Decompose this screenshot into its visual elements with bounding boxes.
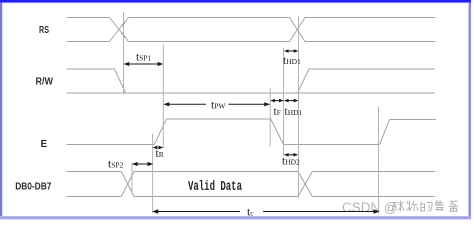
svg-text:tPW: tPW — [211, 100, 226, 112]
DB high rail — [67, 171, 436, 173]
RW low rail — [67, 92, 436, 94]
ref line V5 E fall start — [269, 88, 271, 146]
dimension tF arrow — [274, 100, 280, 102]
dimension tR arrow — [153, 146, 164, 150]
border right — [469, 3, 471, 217]
DB crossover X1 — [121, 172, 134, 197]
border left — [0, 3, 2, 217]
glyph dan — [449, 201, 458, 211]
svg-text:tF: tF — [274, 106, 281, 118]
border bottom — [0, 216, 471, 219]
svg-text:Valid Data: Valid Data — [188, 179, 242, 194]
svg-text:RS: RS — [39, 25, 49, 36]
dimension tC arrow — [157, 211, 374, 213]
svg-text:tSP1: tSP1 — [136, 52, 152, 64]
svg-text:tSP2: tSP2 — [108, 159, 124, 171]
X1 measure ticks — [122, 22, 126, 38]
ref line V1 RS change — [123, 12, 125, 95]
E high rail — [167, 118, 271, 120]
RW falling edge — [115, 69, 126, 93]
glyph de — [421, 202, 432, 212]
svg-text:R/W: R/W — [36, 77, 54, 88]
watermark CJK glyphs — [392, 200, 458, 212]
svg-text:tHD1: tHD1 — [283, 55, 301, 67]
ref line V6 E fall end — [283, 48, 285, 156]
E low rail left — [67, 144, 155, 146]
svg-text:tHD1: tHD1 — [285, 106, 303, 118]
RS high rail — [67, 17, 436, 19]
E high rail 2 — [390, 119, 437, 121]
DB crossover X2 — [298, 172, 312, 197]
RW rising edge — [298, 69, 310, 93]
svg-text:CSDN @: CSDN @ — [342, 200, 398, 215]
dimension tPW arrow — [169, 103, 266, 105]
RW high rail — [67, 68, 436, 70]
glyph du — [407, 201, 419, 212]
dimension tSP2 arrow — [137, 163, 149, 165]
border top — [0, 0, 471, 3]
glyph gu — [392, 201, 404, 212]
RS crossover X2 — [290, 18, 306, 42]
ref line V2 E rise end — [162, 45, 164, 149]
E low rail right — [284, 144, 380, 146]
ref line V8 E rise2 — [378, 107, 380, 213]
ref line V3 E rise start — [152, 134, 154, 214]
svg-text:tc: tc — [247, 207, 254, 219]
RS crossover X1 — [110, 18, 129, 42]
E rising edge — [154, 119, 166, 145]
glyph ao — [436, 200, 445, 211]
ref line V7 RS RW change — [298, 16, 300, 198]
dimension tHD2 arrow — [288, 154, 295, 156]
svg-text:tHD2: tHD2 — [282, 156, 300, 168]
RS low rail — [67, 41, 436, 43]
svg-text:DB0-DB7: DB0-DB7 — [15, 182, 52, 193]
DB low rail — [67, 196, 436, 198]
dimension tHD1 top arrow — [288, 50, 295, 52]
E falling edge — [271, 119, 284, 145]
svg-text:E: E — [41, 139, 48, 150]
dimension tSP1 arrow — [128, 63, 159, 65]
svg-text:tR: tR — [156, 148, 164, 160]
E rising edge 2 — [380, 120, 390, 145]
dimension tHD1 bottom arrow — [288, 100, 295, 102]
ref line V4 DB valid — [131, 162, 133, 194]
